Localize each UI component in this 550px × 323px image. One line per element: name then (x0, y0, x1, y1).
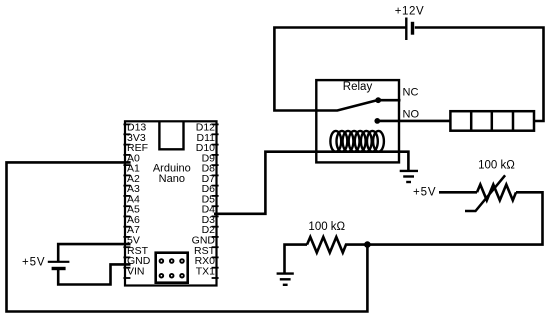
relay K1 body (316, 80, 399, 162)
potentiometer RV1 100k zigzag (477, 185, 516, 201)
svg-text:NO: NO (403, 109, 420, 121)
wire net A0 to divider midpoint (left loop + bottom run) (7, 162, 368, 311)
junction node divider midpoint (364, 241, 371, 248)
wire 5V pin to +5V battery top (58, 244, 130, 261)
Arduino left pin ticks (123, 124, 130, 278)
svg-text:+5V: +5V (22, 257, 45, 269)
relay switch common lever (316, 100, 377, 110)
heating element E1 (450, 111, 534, 131)
svg-text:Nano: Nano (159, 173, 185, 185)
battery B1 +12V short plate (411, 22, 414, 35)
wire +12V battery to relay common (274, 28, 406, 111)
wire +5V to potentiometer (439, 191, 477, 194)
wire resistor to ground (285, 245, 308, 273)
svg-text:+5V: +5V (413, 186, 436, 198)
wire NO to heater (377, 120, 450, 123)
Arduino ICSP header (156, 253, 188, 283)
wire battery negative to GND pin (58, 264, 130, 284)
svg-text:NC: NC (403, 87, 419, 99)
svg-text:100 kΩ: 100 kΩ (478, 160, 515, 172)
labels (127, 122, 216, 278)
battery B2 +5V long plate (48, 261, 70, 263)
relay NO contact (374, 118, 380, 124)
potentiometer RV1 wiper arrow (465, 175, 505, 211)
pin labels right (192, 122, 216, 278)
svg-text:100 kΩ: 100 kΩ (308, 221, 345, 233)
relay NC contact (375, 97, 381, 103)
wire D4 to relay coil and to ground stub (214, 152, 408, 214)
svg-text:Relay: Relay (343, 81, 373, 93)
pin labels left (127, 122, 151, 278)
wire NC stub (378, 99, 400, 102)
Arduino right pin ticks (212, 124, 219, 278)
battery B2 +5V short plate (52, 267, 66, 270)
svg-text:VIN: VIN (127, 265, 145, 277)
battery B1 +12V long plate (405, 18, 407, 41)
Arduino USB notch (159, 122, 183, 150)
wire +12V battery to heater right side (415, 28, 544, 122)
ground GND1 (relay coil) (400, 171, 418, 182)
relay coil L1 (330, 131, 384, 152)
svg-text:TX1: TX1 (196, 265, 215, 277)
ground GND2 (resistor) (277, 274, 294, 285)
Arduino Nano U1 body (125, 121, 217, 285)
svg-text:+12V: +12V (395, 6, 425, 18)
wire potentiometer to divider midpoint (367, 192, 542, 244)
resistor R1 100k zigzag (307, 237, 367, 253)
